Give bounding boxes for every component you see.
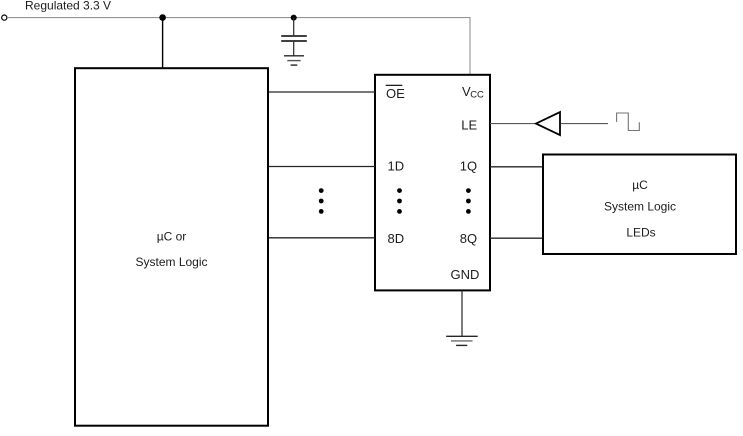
block latch U1 [375, 75, 490, 291]
wire 8D [269, 237, 375, 239]
svg-text:µC: µC [632, 178, 648, 192]
ellipsis dots Q side [466, 188, 471, 214]
svg-text:8D: 8D [388, 231, 405, 246]
svg-text:GND: GND [451, 267, 480, 282]
wire 1D [269, 166, 375, 168]
wire junction to capacitor [293, 18, 295, 36]
svg-text:LE: LE [461, 118, 477, 133]
svg-text:8Q: 8Q [460, 231, 477, 246]
ground below latch [446, 336, 478, 345]
svg-text:1D: 1D [388, 159, 405, 174]
ground below capacitor [284, 56, 304, 65]
wire 8Q [490, 237, 543, 239]
svg-text:µC or: µC or [157, 230, 187, 244]
svg-text:CC: CC [470, 90, 484, 101]
svg-text:Regulated 3.3 V: Regulated 3.3 V [25, 0, 111, 13]
svg-text:LEDs: LEDs [626, 225, 655, 239]
junction at left box supply [159, 14, 166, 21]
wire buffer to pulse [561, 123, 608, 125]
wire main 3.3V rail [7, 18, 470, 75]
wire LE to buffer [490, 123, 536, 125]
block uC or System Logic [75, 68, 268, 426]
wire 1Q [490, 166, 543, 168]
svg-text:System Logic: System Logic [135, 255, 207, 269]
pulse waveform symbol [617, 113, 640, 131]
wire OE [269, 91, 375, 93]
block uC System Logic LEDs [543, 155, 736, 255]
svg-text:1Q: 1Q [460, 159, 477, 174]
wire junction to left box [162, 18, 164, 68]
ellipsis dots D side [397, 188, 402, 214]
wire GND pin to ground [461, 291, 463, 337]
junction at bypass capacitor [291, 15, 297, 21]
ellipsis dots between blocks [319, 188, 324, 214]
wire capacitor to ground [293, 42, 295, 56]
input terminal [2, 15, 7, 20]
buffer triangle LE driver [536, 112, 560, 135]
capacitor bypass [281, 36, 307, 41]
svg-text:OE: OE [386, 86, 405, 101]
svg-text:System Logic: System Logic [604, 199, 676, 213]
